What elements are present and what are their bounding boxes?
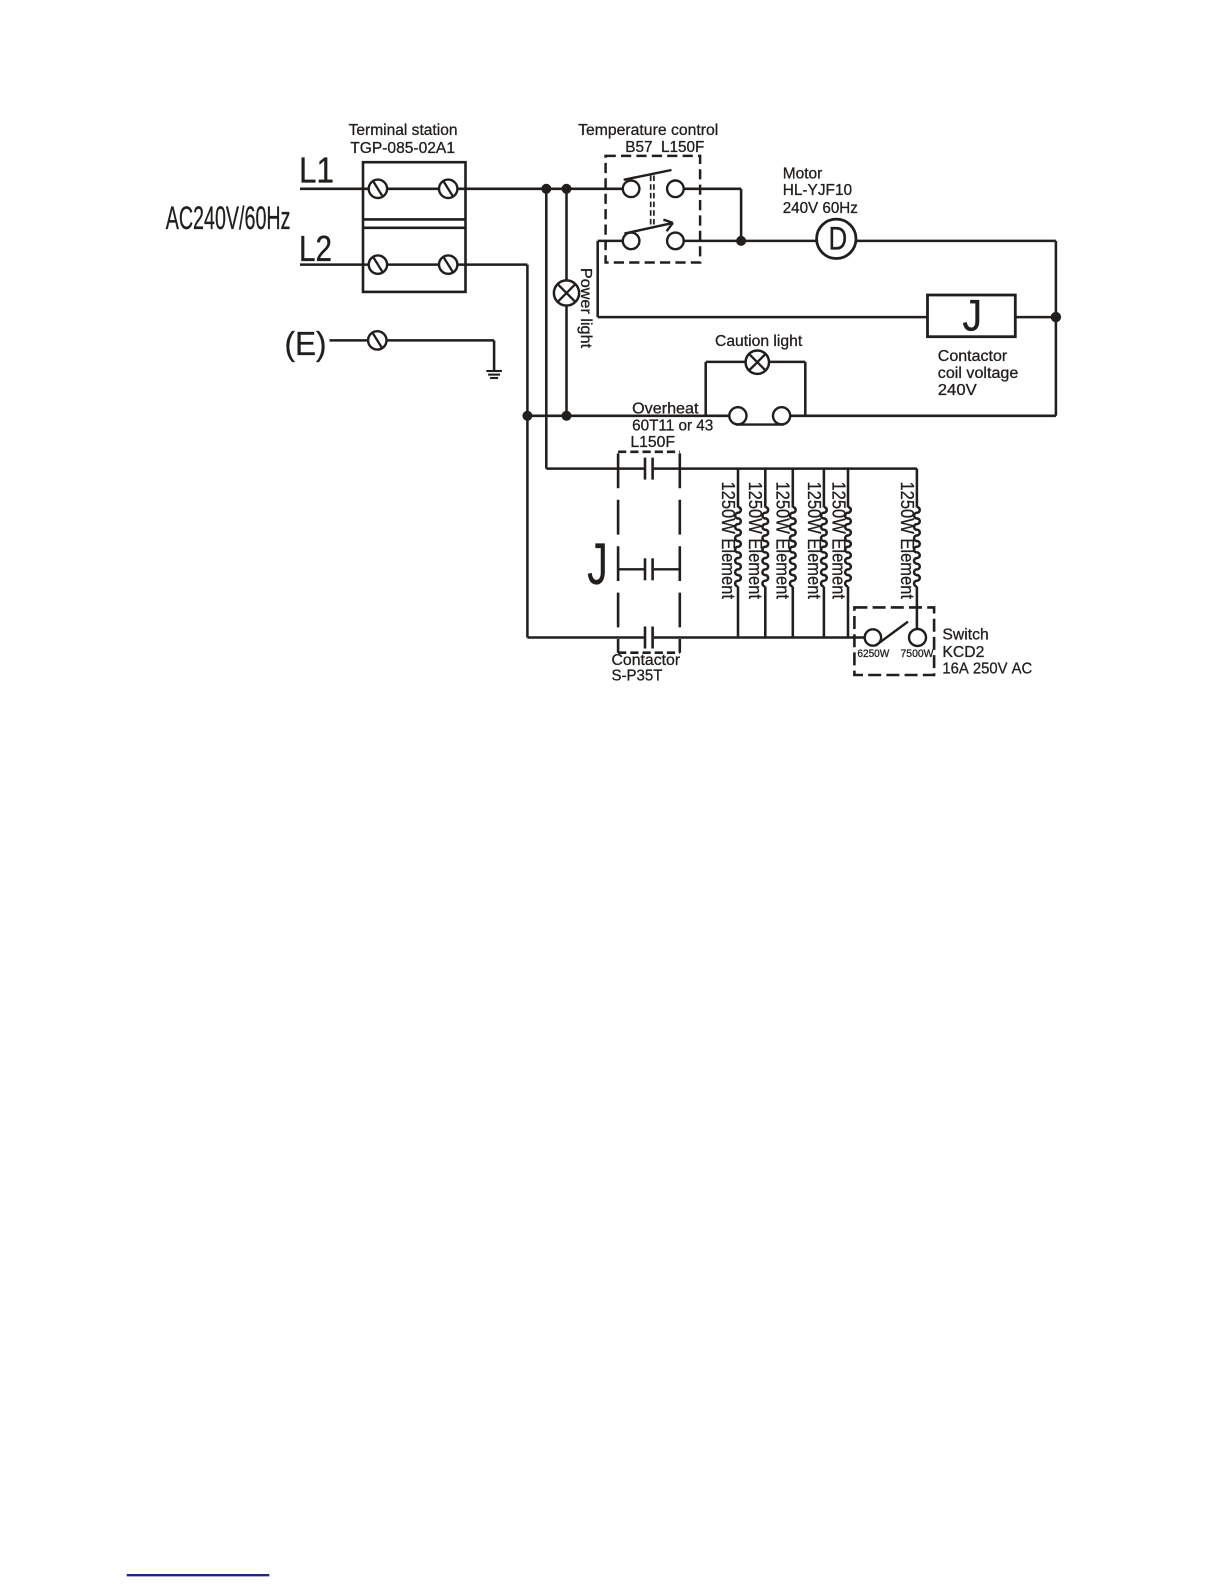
svg-text:240V 60Hz: 240V 60Hz <box>783 200 858 217</box>
temperature control dashed box B57 L150F <box>606 156 701 263</box>
wire E row <box>330 339 495 342</box>
wire element bottom bus <box>527 636 644 639</box>
overheat cutout contact plates (L150F) <box>645 458 653 480</box>
svg-text:D: D <box>829 220 848 256</box>
svg-text:1250W Element: 1250W Element <box>804 482 825 600</box>
switch lever <box>876 622 908 646</box>
svg-text:1250W Element: 1250W Element <box>773 482 794 600</box>
wire temp control upper exit <box>684 188 741 191</box>
node junction dot L1/power-light <box>562 184 572 194</box>
temp control contact lower right <box>667 233 684 250</box>
heating element column 1 lead-in <box>737 469 740 508</box>
temp control contact lower left <box>623 233 640 250</box>
wire E drop to ground <box>493 340 496 371</box>
lamp power light <box>554 280 579 305</box>
node junction dot right bus / contactor coil <box>1051 312 1061 322</box>
svg-text:Switch: Switch <box>942 626 988 643</box>
svg-text:J: J <box>587 532 608 597</box>
svg-text:L1: L1 <box>299 150 334 191</box>
node junction dot motor row <box>736 236 746 246</box>
heating element coil 3 (1250W Element) <box>790 507 796 586</box>
node junction dot overheat row power light <box>562 411 572 421</box>
heating element column 3 lead-in <box>792 469 795 508</box>
wire L1 row <box>300 188 623 191</box>
terminal screw L2 right <box>439 255 457 273</box>
node junction dot overheat row left <box>522 411 532 421</box>
terminal screw earth E <box>368 331 386 349</box>
switch terminal 7500W <box>909 629 926 646</box>
svg-text:TGP-085-02A1: TGP-085-02A1 <box>350 140 455 157</box>
wire motor row <box>684 240 1056 243</box>
svg-text:7500W: 7500W <box>901 648 934 660</box>
wire coil row drop <box>596 241 599 317</box>
contactor middle contact (aux) <box>618 558 680 580</box>
wire overheat row left <box>527 415 729 418</box>
wire caution loop left vertical <box>704 362 707 416</box>
heating element coil 6 (1250W Element) <box>914 507 920 586</box>
wire L2 vertical drop <box>526 265 529 638</box>
temp control mechanical link (double dashed) <box>650 176 652 228</box>
switch KCD2 dashed box <box>854 607 934 675</box>
svg-text:(E): (E) <box>285 326 327 363</box>
svg-text:Temperature control: Temperature control <box>578 122 718 139</box>
wire power light branch <box>565 189 568 416</box>
overheat contact left terminal <box>729 407 746 424</box>
heating element column 1 lead-out <box>737 586 740 637</box>
terminal screw L1 right <box>439 180 457 198</box>
temp control upper lever <box>624 170 672 180</box>
svg-text:Terminal station: Terminal station <box>349 122 458 139</box>
terminal screw L1 left <box>369 180 387 198</box>
node junction dot L1/branch-A <box>541 184 551 194</box>
svg-text:KCD2: KCD2 <box>942 644 984 661</box>
contactor S-P35T dashed box <box>618 452 680 653</box>
svg-text:Overheat: Overheat <box>632 401 699 418</box>
wire L2 row <box>300 263 527 266</box>
heating element column 5 lead-in <box>847 469 850 508</box>
lamp caution light <box>746 351 769 374</box>
heating element coil 1 (1250W Element) <box>735 507 741 586</box>
wire temp control upper exit drop <box>740 189 743 241</box>
svg-text:60T11 or 43: 60T11 or 43 <box>632 418 713 435</box>
wire overheat row right <box>790 415 1056 418</box>
wire caution loop top <box>706 361 806 364</box>
wire branch to overheat cutout (L1) <box>545 189 548 469</box>
temp control lower lever with arrow <box>624 220 673 234</box>
svg-text:Power light: Power light <box>577 268 594 349</box>
svg-text:1250W Element: 1250W Element <box>828 482 849 600</box>
svg-text:coil voltage: coil voltage <box>938 365 1019 382</box>
terminal screw L2 left <box>369 255 387 273</box>
svg-text:6250W: 6250W <box>857 648 889 660</box>
contactor coil box J <box>928 295 1016 337</box>
wire J box to right bus <box>1015 316 1056 319</box>
svg-text:1250W Element: 1250W Element <box>745 482 766 600</box>
heating element column 2 lead-in <box>764 469 767 508</box>
svg-text:1250W Element: 1250W Element <box>897 482 918 600</box>
svg-text:L150F: L150F <box>630 434 675 451</box>
wire temp control lower exit left <box>598 240 623 243</box>
svg-text:J: J <box>963 291 983 340</box>
blue footer rule <box>127 1574 270 1576</box>
heating element column 2 lead-out <box>764 586 767 637</box>
svg-text:S-P35T: S-P35T <box>612 668 663 685</box>
temp control contact upper left <box>623 181 640 198</box>
overheat contact right terminal <box>773 407 790 424</box>
svg-text:16A 250V AC: 16A 250V AC <box>942 660 1032 677</box>
svg-text:Contactor: Contactor <box>612 652 681 669</box>
svg-text:Caution light: Caution light <box>715 333 803 350</box>
terminal station box TGP-085-02A1 <box>363 162 466 292</box>
svg-text:1250W Element: 1250W Element <box>718 482 739 600</box>
svg-text:240V: 240V <box>938 382 977 399</box>
heating element column 6 lead-in <box>916 469 919 508</box>
heating element coil 5 (1250W Element) <box>845 507 851 586</box>
heating element column 4 lead-out <box>823 586 826 637</box>
svg-text:B57 L150F: B57 L150F <box>625 139 704 156</box>
overheat contact bridge <box>736 423 784 425</box>
svg-text:Contactor: Contactor <box>938 348 1007 365</box>
heating element column 5 lead-out <box>847 586 850 637</box>
temp control contact upper right <box>667 181 684 198</box>
heating element coil 4 (1250W Element) <box>821 507 827 586</box>
svg-text:Motor: Motor <box>783 165 823 182</box>
wire element top bus <box>546 467 644 470</box>
motor circle D <box>817 219 856 258</box>
svg-text:AC240V/60Hz: AC240V/60Hz <box>166 200 291 236</box>
wire right bus vertical <box>1055 241 1058 416</box>
contactor bottom contact plates <box>645 627 653 649</box>
svg-text:HL-YJF10: HL-YJF10 <box>783 182 853 199</box>
svg-text:L2: L2 <box>299 228 332 269</box>
heating element column 6 lead-out <box>916 586 919 629</box>
heating element column 3 lead-out <box>792 586 795 637</box>
heating element coil 2 (1250W Element) <box>762 507 768 586</box>
ground symbol <box>486 370 502 372</box>
heating element column 4 lead-in <box>823 469 826 508</box>
switch terminal 6250W <box>865 629 881 645</box>
wire coil row to J box <box>598 316 928 319</box>
wire caution loop right vertical <box>804 362 807 416</box>
